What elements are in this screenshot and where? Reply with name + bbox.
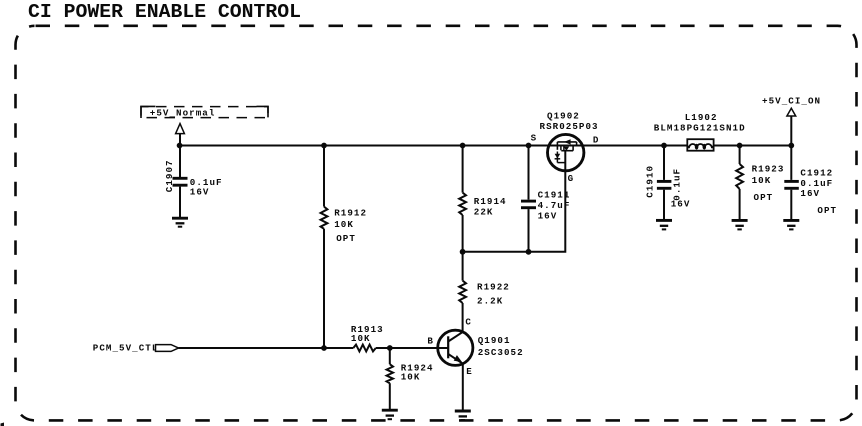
ground under C1912: [783, 220, 799, 229]
svg-text:16V: 16V: [800, 188, 820, 199]
power flag +5V_Normal: [141, 106, 268, 133]
power flag +5V_CI_ON: [762, 96, 821, 116]
resistor R1914: [459, 146, 506, 252]
node R1914 top: [460, 143, 466, 149]
node C1910 top: [661, 143, 667, 149]
svg-text:Q1901: Q1901: [478, 335, 511, 346]
svg-text:S: S: [531, 133, 538, 144]
title: [28, 1, 301, 23]
svg-text:C: C: [465, 317, 472, 328]
resistor R1922: [459, 252, 510, 332]
resistor R1912: [321, 146, 367, 245]
svg-text:OPT: OPT: [754, 192, 774, 203]
L1902 ref labels: [654, 112, 746, 133]
svg-text:2.2K: 2.2K: [477, 295, 503, 306]
resistor R1924: [387, 348, 434, 410]
svg-text:+5V_Normal: +5V_Normal: [150, 108, 216, 119]
svg-text:RSR025P03: RSR025P03: [540, 121, 599, 132]
capacitor C1907: [164, 146, 187, 219]
svg-text:10K: 10K: [401, 372, 421, 383]
wire riser to +5V_CI_ON: [790, 116, 792, 146]
svg-text:C1912: C1912: [800, 167, 833, 178]
pin label E: [466, 366, 473, 377]
wire emitter of Q1901 to ground: [462, 364, 464, 411]
ground under C1910: [656, 220, 672, 229]
svg-text:OPT: OPT: [817, 205, 837, 216]
svg-text:16V: 16V: [671, 199, 691, 210]
pin label S: [531, 133, 538, 144]
svg-text:10K: 10K: [351, 333, 371, 344]
input flag PCM_5V_CTL: [93, 342, 179, 353]
svg-text:Q1902: Q1902: [547, 111, 580, 122]
svg-text:+5V_CI_ON: +5V_CI_ON: [762, 96, 821, 107]
svg-text:E: E: [466, 366, 473, 377]
svg-text:BLM18PG121SN1D: BLM18PG121SN1D: [654, 122, 746, 133]
ground under C1907: [172, 218, 188, 227]
resistor R1923: [736, 146, 784, 220]
node R1912 top: [321, 143, 327, 149]
svg-text:CI POWER ENABLE CONTROL: CI POWER ENABLE CONTROL: [28, 1, 301, 23]
C1907 value 0.1uF 16V: [190, 177, 223, 198]
capacitor C1910: [644, 146, 671, 220]
C1910 value 0.1uF 16V: [671, 168, 691, 210]
ground at Q1901 emitter: [455, 411, 471, 420]
node R1923 top: [737, 143, 743, 149]
wire gate of Q1902 to R1914 bottom: [463, 151, 566, 252]
Q1901 ref labels: [478, 335, 524, 358]
node +5V_CI_ON / C1912 top: [788, 143, 794, 149]
Q1902 ref labels: [540, 111, 599, 132]
ground under R1923: [732, 220, 748, 229]
node R1914 bottom / gate net: [460, 249, 466, 255]
pin label G: [568, 173, 575, 184]
svg-text:G: G: [568, 173, 575, 184]
transistor Q1901 (npn): [438, 330, 473, 365]
ground under R1924: [382, 410, 398, 419]
wire R1913 to Q1901 base: [376, 347, 448, 349]
pin label B: [427, 336, 434, 347]
capacitor C1912: [784, 146, 799, 220]
wire R1912 to PCM node: [323, 229, 325, 348]
svg-text:4.7uF: 4.7uF: [538, 200, 571, 211]
svg-text:0.1uF: 0.1uF: [672, 168, 683, 201]
pin label D: [593, 134, 600, 145]
capacitor C1911: [521, 146, 536, 252]
svg-text:22K: 22K: [474, 206, 494, 217]
node S (source of Q1902): [526, 143, 532, 149]
svg-text:2SC3052: 2SC3052: [478, 347, 524, 358]
node R1924 top: [387, 345, 393, 351]
resistor R1913: [351, 324, 384, 351]
C1911 ref and value: [538, 189, 571, 221]
svg-text:C1910: C1910: [644, 165, 655, 198]
svg-text:PCM_5V_CTL: PCM_5V_CTL: [93, 342, 159, 353]
svg-text:16V: 16V: [190, 187, 210, 198]
svg-text:10K: 10K: [752, 175, 772, 186]
pin label C: [465, 317, 472, 328]
inductor L1902: [687, 139, 713, 151]
svg-text:B: B: [427, 336, 434, 347]
svg-text:OPT: OPT: [336, 233, 356, 244]
svg-text:10K: 10K: [334, 219, 354, 230]
svg-text:R1912: R1912: [334, 207, 367, 218]
wire +5V_Normal stem: [179, 134, 181, 146]
wire main +5V rail: [180, 145, 792, 147]
transistor Q1902 (p-mosfet): [548, 134, 584, 170]
C1912 ref and value: [800, 167, 837, 216]
svg-text:R1922: R1922: [477, 281, 510, 292]
node main rail at C1907: [177, 143, 183, 149]
svg-text:C1907: C1907: [164, 159, 175, 192]
svg-text:R1923: R1923: [752, 164, 785, 175]
wire PCM_5V_CTL to R1913: [179, 347, 354, 349]
svg-text:R1914: R1914: [474, 196, 507, 207]
svg-text:C1911: C1911: [538, 189, 571, 200]
node C1911 bottom: [526, 249, 532, 255]
svg-text:16V: 16V: [538, 211, 558, 222]
node R1912 bottom on PCM wire: [321, 345, 327, 351]
svg-text:D: D: [593, 134, 600, 145]
